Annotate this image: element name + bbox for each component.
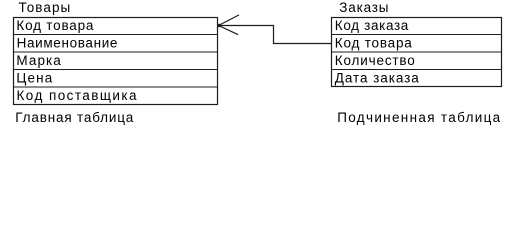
arrowhead upper barb (219, 15, 240, 26)
row separator 3 (14, 69, 218, 71)
row separator 3 (right) (332, 69, 502, 71)
row separator 1 (right) (332, 34, 502, 36)
svg-text:Главная таблица: Главная таблица (15, 110, 133, 125)
svg-text:Марка: Марка (16, 53, 61, 68)
svg-text:Количество: Количество (335, 53, 415, 68)
row separator 1 (14, 34, 218, 36)
table Заказы frame (332, 18, 502, 87)
svg-text:Цена: Цена (16, 71, 52, 86)
table Товары frame (14, 18, 218, 105)
svg-text:Дата заказа: Дата заказа (335, 71, 419, 86)
arrowhead lower barb (219, 26, 239, 35)
svg-text:Код заказа: Код заказа (335, 18, 409, 33)
svg-text:Код товара: Код товара (335, 36, 412, 51)
svg-text:Код товара: Код товара (16, 18, 93, 33)
row separator 4 (14, 86, 218, 88)
row separator 2 (14, 51, 218, 53)
row separator 2 (right) (332, 51, 502, 53)
svg-text:Подчиненная таблица: Подчиненная таблица (337, 110, 500, 125)
svg-text:Код поставщика: Код поставщика (17, 88, 137, 103)
wire: horizontal from arrow tip to elbow (219, 25, 275, 27)
wire: horizontal from elbow to table Заказы (273, 43, 332, 45)
svg-text:Заказы: Заказы (339, 0, 388, 15)
svg-text:Наименование: Наименование (17, 36, 118, 51)
wire: vertical elbow segment (273, 26, 275, 44)
svg-text:Товары: Товары (19, 0, 71, 15)
arrowhead tip dot (218, 24, 222, 28)
